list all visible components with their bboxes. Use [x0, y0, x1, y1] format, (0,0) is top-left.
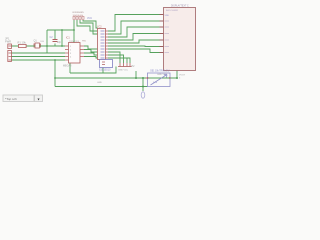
wire: vertical branch at node x=47	[46, 30, 48, 53]
wire: net from JP1 pin 2 to IC1 pin 3	[11, 52, 65, 54]
node: junction x=74 y=30 VCC	[73, 29, 75, 31]
wire: branch to header H2 pin 4	[112, 58, 130, 63]
UI sheet selector combobox	[3, 95, 43, 102]
IC IC2 body	[98, 29, 106, 60]
IC2 pin names	[101, 31, 105, 58]
svg-text:MEGA8: MEGA8	[63, 65, 72, 68]
wire: IC2 pin to display pin 7	[108, 49, 160, 53]
node: junction x=47 y=46	[46, 45, 48, 47]
svg-text:R1 10k: R1 10k	[18, 41, 27, 45]
resistor R2 (pull-up)	[73, 17, 75, 20]
node: junction x=62 y=46	[61, 45, 63, 47]
svg-text:22p: 22p	[57, 41, 62, 44]
node: junction lower rail / ground drop	[142, 86, 144, 88]
wire: display VO pin down to trimpot R7 wiper net	[170, 71, 177, 79]
wire: blue box S2 drop to rail y=73	[102, 68, 104, 74]
wire: IC1 pin 3 to IC2 left pin	[84, 53, 98, 55]
wire: IC2 pin to display pin 2	[108, 21, 160, 34]
U3 left pins 1-7	[160, 15, 164, 53]
wire: vertical branch x=62 joining y=30 run to IC1 net	[61, 30, 63, 46]
wire: capacitor C2 leads	[47, 30, 55, 46]
svg-text:IC2: IC2	[98, 25, 103, 29]
wire: lower GND rail y=86.5	[55, 86, 148, 88]
node: junction GND wire x=55 y=60	[54, 59, 56, 61]
svg-text:PWR: PWR	[5, 40, 11, 44]
IC1 pin numbers	[70, 46, 72, 59]
resistor R4 (pull-up)	[79, 17, 81, 20]
trimpot R7 left pin stub	[146, 77, 148, 79]
svg-text:TINY2313: TINY2313	[69, 41, 80, 43]
node: junction trimpot net / display VO	[176, 77, 178, 79]
wire: rail y=73 to comb header H2	[70, 67, 116, 74]
trimpot R7	[148, 73, 171, 87]
wire: vertical from VCC run down to IC1 top pin	[73, 20, 75, 43]
svg-text:S1D15G10: S1D15G10	[99, 70, 111, 72]
wire: horizontal VCC run y=30	[47, 29, 74, 31]
IC1 left pins	[65, 46, 69, 60]
trimpot R7 pin 1 contact	[147, 77, 148, 78]
header H2 (comb)	[118, 63, 132, 67]
wire: GND rail y=78 across to trimpot R7	[55, 77, 170, 79]
capacitor C2	[53, 40, 58, 42]
svg-text:16M: 16M	[40, 41, 44, 43]
ground GND symbol	[141, 92, 145, 98]
svg-text:*Top sch: *Top sch	[5, 97, 17, 101]
node: junction GND rail x=55	[54, 77, 56, 79]
display module U3 body	[164, 8, 196, 71]
svg-text:GND VCC: GND VCC	[118, 70, 129, 72]
wire: GND symbol drop at x=143	[142, 78, 144, 91]
switch S2 (blue box)	[100, 60, 113, 68]
wire: IC1 pin 2 to IC2 left pin	[84, 50, 98, 53]
wire: GND net from JP1 pin 4 to IC1 pin 5	[11, 59, 65, 61]
wire: IC2 pin to display pin 6	[108, 45, 160, 48]
wire: IC2 pin to header H2 pin 3	[108, 58, 127, 63]
resistor R5 (pull-up)	[82, 17, 84, 20]
svg-text:▼: ▼	[37, 97, 41, 101]
resistor R1	[19, 44, 27, 47]
svg-text:GND: GND	[97, 82, 102, 84]
svg-text:VOUT: VOUT	[179, 75, 186, 77]
svg-text:10k10k10k: 10k10k10k	[73, 15, 84, 17]
svg-text:G$1 10k TRIM_EU: G$1 10k TRIM_EU	[150, 71, 170, 73]
wire: net from JP1 pin 3 to IC1 pin 4	[11, 56, 65, 58]
svg-text:VDD: VDD	[165, 15, 170, 17]
wire: pull-up R5 drop to IC2 pin	[83, 20, 98, 28]
wire: pull-up R3 drop to IC2 pin	[77, 20, 98, 31]
crystal Q1	[33, 43, 43, 48]
IC IC1 body	[69, 43, 81, 64]
node: junction H2/GND rail	[135, 77, 137, 79]
svg-text:DISPLAYTEXT C: DISPLAYTEXT C	[171, 4, 189, 7]
wire: header H2 area drop to GND rail	[135, 71, 137, 78]
U3 pin names	[165, 21, 170, 53]
svg-text:IC1: IC1	[66, 37, 70, 40]
wire: IC2 pin to display pin 4	[108, 34, 160, 41]
wire: IC2 pin to header H2 pin 1	[108, 52, 120, 63]
IC2 right pins	[106, 31, 109, 58]
wire: IC2 pin to display pin 5	[108, 40, 160, 43]
resistor R3 (pull-up)	[76, 17, 78, 20]
wire: GND drop at x=55 down to bottom rails	[54, 60, 56, 87]
node: junction x=62 y=30	[61, 29, 63, 31]
wire: IC2 pin to display pin 3	[108, 27, 160, 37]
wire: net from JP1 pin 1 through R1 to IC1 pin 1	[11, 45, 65, 47]
trimpot R7 pin 2 contact	[169, 77, 170, 78]
wire: IC1 pin 4 to IC2 left pin	[84, 57, 98, 59]
IC1 right pins	[80, 46, 84, 57]
svg-text:EA DOGM81: EA DOGM81	[166, 9, 179, 12]
wire: IC1 pin 1 to IC2 left pin	[84, 46, 98, 49]
svg-text:VCC: VCC	[87, 17, 92, 20]
wire: IC1 bottom pin drop to rail y=73	[69, 63, 71, 73]
wire: pull-up R4 drop to IC2 pin	[80, 20, 98, 34]
wire: IC2 pin to header H2 pin 2	[108, 55, 124, 63]
wire: IC2 pin to display pin 1	[108, 15, 160, 32]
connector JP1 body	[8, 44, 12, 62]
node: junction GND rail / ground drop	[142, 77, 144, 79]
